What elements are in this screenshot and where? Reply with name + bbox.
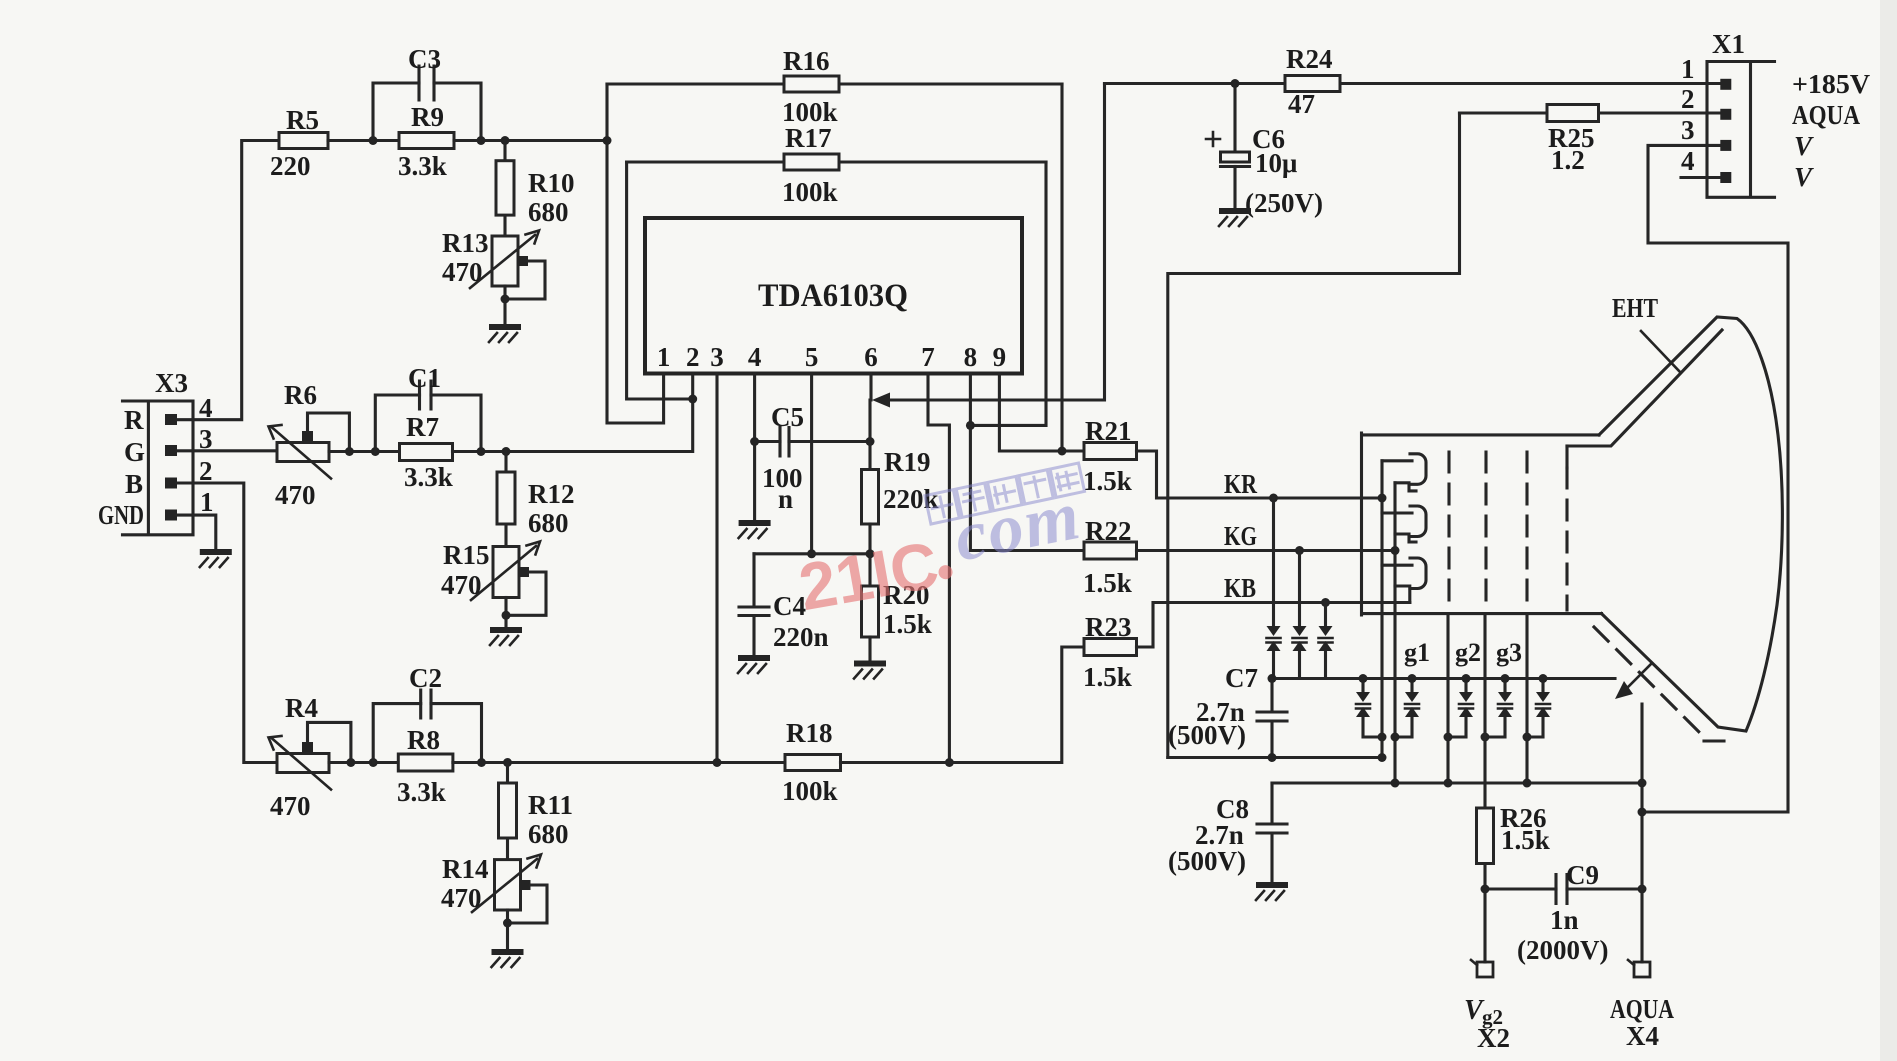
clamp diodes KR column — [1267, 498, 1281, 679]
clamp diodes KB column — [1319, 603, 1333, 679]
resistor R17 (pin2 to pin8 feedback) — [627, 123, 1046, 207]
resistor R22 — [1083, 516, 1137, 598]
wire lower rail from box leg — [1168, 756, 1382, 759]
svg-text:KR: KR — [1224, 469, 1257, 499]
wire cathode stem A — [1380, 461, 1383, 758]
node R5/C3 junction — [369, 136, 378, 145]
resistor R18 — [782, 718, 841, 806]
scan edge shade — [1880, 0, 1897, 1061]
svg-text:R12: R12 — [528, 479, 575, 509]
wire aqua rail (C8 rail) — [1272, 781, 1642, 784]
grid clamp diode column g2 — [1444, 674, 1474, 742]
grid clamp diode column g4 — [1523, 674, 1551, 742]
node C2 right — [477, 758, 486, 767]
wire pin6 node down to R19 — [868, 400, 871, 470]
wire grid stem g3 — [1525, 614, 1528, 783]
svg-text:680: 680 — [528, 197, 569, 227]
svg-text:3.3k: 3.3k — [398, 151, 447, 181]
ground (pin 4) — [739, 520, 771, 538]
resistor R26 — [1477, 803, 1550, 962]
svg-text:2: 2 — [1681, 84, 1695, 114]
arrow into pin 6 — [872, 393, 890, 408]
wire R5 to R9 — [328, 139, 399, 142]
svg-text:R5: R5 — [286, 105, 319, 135]
svg-text:AQUA: AQUA — [1610, 994, 1674, 1024]
svg-text:8: 8 — [964, 342, 978, 372]
svg-text:470: 470 — [270, 791, 311, 821]
svg-text:TDA6103Q: TDA6103Q — [758, 278, 908, 314]
svg-text:R: R — [124, 405, 144, 435]
svg-text:R17: R17 — [785, 123, 832, 153]
svg-text:R22: R22 — [1085, 516, 1132, 546]
cathode K2 — [1382, 506, 1426, 542]
svg-text:G: G — [124, 437, 145, 467]
svg-text:R15: R15 — [443, 540, 490, 570]
svg-text:g3: g3 — [1496, 638, 1522, 667]
wire pin4 down to ground — [753, 374, 756, 521]
label EHT with pointer — [1612, 293, 1680, 372]
node R channel to R16 leg — [603, 136, 612, 145]
svg-text:R4: R4 — [285, 693, 318, 723]
svg-text:1: 1 — [657, 342, 671, 372]
svg-text:C1: C1 — [408, 363, 441, 393]
svg-text:X4: X4 — [1626, 1021, 1659, 1051]
svg-text:470: 470 — [442, 257, 483, 287]
svg-text:470: 470 — [441, 883, 482, 913]
svg-text:470: 470 — [275, 480, 316, 510]
svg-text:R24: R24 — [1286, 44, 1333, 74]
cathode K1 — [1382, 454, 1426, 491]
svg-text:EHT: EHT — [1612, 293, 1658, 323]
watermark chinese characters — [925, 463, 1085, 524]
terminal X2 — [1464, 960, 1510, 1053]
node C7 bottom — [1268, 753, 1277, 762]
grid clamp diode column g0 — [1356, 674, 1387, 742]
wire X3 pin1 to ground — [177, 515, 216, 549]
wire R16 left leg to pin 1 — [607, 84, 664, 423]
CRT bell outline with EHT funnel — [1567, 317, 1782, 731]
svg-text:R11: R11 — [528, 790, 573, 820]
svg-text:1.5k: 1.5k — [1083, 466, 1132, 496]
wire R18 line right end up to R23 — [841, 647, 1085, 763]
cathode K3 — [1382, 558, 1426, 603]
wire R25 left down to grid box rail — [1168, 113, 1460, 758]
node R10 top — [501, 136, 510, 145]
resistor R20 — [862, 554, 932, 661]
svg-text:(250V): (250V) — [1245, 188, 1323, 218]
resistor R10 — [496, 141, 575, 237]
svg-text:GND: GND — [98, 500, 144, 530]
capacitor C1 — [375, 363, 481, 452]
svg-text:R19: R19 — [884, 447, 931, 477]
svg-text:C2: C2 — [409, 663, 442, 693]
wire X3 pin3 to R6 (G channel) — [177, 449, 277, 452]
resistor R5 — [270, 105, 328, 181]
svg-text:(2000V): (2000V) — [1517, 935, 1608, 965]
node pin7 to R18 line — [945, 758, 954, 767]
svg-text:4: 4 — [748, 342, 762, 372]
svg-text:220k: 220k — [883, 484, 939, 514]
wire pin8 node down to R22 — [970, 425, 1084, 550]
potentiometer R15 — [441, 540, 546, 627]
svg-text:R8: R8 — [407, 725, 440, 755]
svg-text:R18: R18 — [786, 718, 833, 748]
wire pin2 stub — [691, 374, 694, 400]
svg-text:10μ: 10μ — [1255, 148, 1297, 178]
connector X3 — [98, 368, 214, 535]
svg-text:1.5k: 1.5k — [1083, 568, 1132, 598]
node KR to stem A — [1378, 494, 1387, 503]
node pin9/R16/R21 — [1058, 447, 1067, 456]
node C3 right — [477, 136, 486, 145]
svg-text:3.3k: 3.3k — [397, 777, 446, 807]
potentiometer R14 — [441, 854, 547, 949]
svg-text:3: 3 — [710, 342, 724, 372]
node pin5 to C4 line — [807, 549, 816, 558]
svg-text:100k: 100k — [782, 177, 838, 207]
node R26/C9 — [1481, 885, 1490, 894]
node C6 tap — [1231, 79, 1240, 88]
node rail/C7 — [1268, 674, 1277, 683]
svg-text:3: 3 — [1681, 115, 1695, 145]
svg-text:47: 47 — [1288, 89, 1315, 119]
svg-text:680: 680 — [528, 508, 569, 538]
capacitor C4 — [739, 554, 829, 655]
resistor R19 — [862, 447, 939, 554]
node KG to stem B — [1391, 546, 1400, 555]
svg-text:R13: R13 — [442, 228, 489, 258]
node R11 top — [503, 758, 512, 767]
wire AQUA column — [1640, 704, 1643, 962]
capacitor C6 (electrolytic) — [1206, 84, 1323, 219]
wire pin7 down to B output line — [928, 374, 949, 763]
svg-text:(500V): (500V) — [1168, 846, 1246, 876]
CRT grid electrodes (dashed) — [1449, 446, 1567, 610]
svg-text:6: 6 — [864, 342, 878, 372]
resistor R25 — [1460, 105, 1721, 176]
wire R7 to IC pin2 riser — [453, 399, 693, 452]
potentiometer R13 — [442, 228, 545, 324]
wire pin5 down to C4 line — [810, 374, 813, 554]
watermark 21IC — [794, 525, 958, 624]
svg-text:g2: g2 — [1455, 638, 1481, 667]
node AQUA rail end — [1638, 779, 1647, 788]
svg-text:R16: R16 — [783, 46, 830, 76]
svg-text:2: 2 — [686, 342, 700, 372]
svg-text:1.5k: 1.5k — [1501, 825, 1550, 855]
svg-text:1n: 1n — [1550, 905, 1579, 935]
wire pin9 to R21 — [999, 374, 1084, 452]
potentiometer R6 — [269, 380, 350, 510]
wire R17 left leg to pin 2 — [627, 162, 693, 399]
svg-text:g1: g1 — [1404, 638, 1430, 667]
node AQUA/C9 — [1638, 885, 1647, 894]
svg-text:3.3k: 3.3k — [404, 462, 453, 492]
svg-text:C7: C7 — [1225, 663, 1258, 693]
svg-text:470: 470 — [441, 570, 482, 600]
wire R4 to R8 — [329, 761, 398, 764]
node KR clamp tap — [1269, 494, 1278, 503]
svg-text:V: V — [1794, 162, 1814, 192]
node stem B end — [1391, 779, 1400, 788]
capacitor C8 — [1168, 783, 1287, 882]
svg-text:X1: X1 — [1712, 29, 1745, 59]
svg-text:+185V: +185V — [1792, 69, 1871, 99]
wire R22 to KG — [1137, 549, 1396, 552]
grid clamp diode column g1 — [1391, 674, 1420, 742]
svg-text:R14: R14 — [442, 854, 489, 884]
ground (C8) — [1256, 882, 1288, 900]
node stem g3 end — [1523, 779, 1532, 788]
resistor R8 — [397, 725, 453, 807]
wire X3 pin2 down to B channel — [177, 483, 277, 763]
wire R9 to node — [454, 139, 607, 142]
wire R6 to R7 — [329, 450, 400, 453]
svg-text:100k: 100k — [782, 776, 838, 806]
wire grid stem g2 (to R26) — [1483, 614, 1486, 808]
resistor R21 — [1083, 416, 1137, 496]
svg-text:KG: KG — [1224, 521, 1257, 551]
wire R16 right leg to pin9 node — [1060, 84, 1063, 451]
node KG clamp tap — [1295, 546, 1304, 555]
capacitor C5 — [755, 402, 870, 514]
wire R21 to KR — [1137, 451, 1383, 498]
svg-text:C9: C9 — [1566, 860, 1599, 890]
terminal X4 — [1610, 960, 1674, 1051]
beam arrow at rail end — [1615, 663, 1652, 699]
ground (X3 pin1) — [200, 549, 232, 567]
capacitor C7 — [1168, 663, 1287, 758]
node pin2 junction — [688, 395, 697, 404]
wire grid stem g1 — [1446, 614, 1449, 783]
svg-text:C5: C5 — [771, 402, 804, 432]
clamp diodes KG column — [1293, 551, 1307, 679]
svg-text:9: 9 — [993, 342, 1007, 372]
svg-text:7: 7 — [921, 342, 935, 372]
node C2 left — [369, 758, 378, 767]
watermark .com — [948, 477, 1087, 577]
grid clamp diode column g3 — [1481, 674, 1513, 742]
wire X3 pin4 up to R channel — [177, 141, 279, 420]
node pin3 to B line — [713, 758, 722, 767]
CRT gun box — [1362, 433, 1602, 615]
ground (C4) — [738, 655, 770, 673]
node C5/R19 — [866, 437, 875, 446]
ground (R13) — [489, 324, 521, 342]
svg-text:220n: 220n — [773, 622, 829, 652]
node pin8 junction — [966, 421, 975, 430]
svg-text:1: 1 — [200, 487, 214, 517]
svg-text:1: 1 — [1681, 54, 1695, 84]
node stem g1 end — [1444, 779, 1453, 788]
svg-text:220: 220 — [270, 151, 311, 181]
resistor R24 — [1285, 44, 1340, 119]
resistor R16 (pin1 to pin9 feedback) — [607, 46, 1062, 127]
svg-text:C3: C3 — [408, 44, 441, 74]
wire X1 pin4 stub — [1681, 176, 1720, 179]
wire R23 to KB — [1137, 603, 1410, 648]
svg-text:R21: R21 — [1085, 416, 1132, 446]
wire clamp rail (C7 rail) — [1272, 677, 1615, 680]
svg-text:X2: X2 — [1477, 1023, 1510, 1053]
svg-text:R6: R6 — [284, 380, 317, 410]
wire pin3 down to B line — [715, 374, 718, 763]
capacitor C3 — [373, 44, 481, 141]
ground (C6) — [1219, 208, 1251, 226]
svg-text:1.2: 1.2 — [1551, 145, 1585, 175]
resistor R11 — [499, 763, 574, 860]
ground (R20) — [854, 661, 886, 679]
svg-text:R23: R23 — [1085, 612, 1132, 642]
wire cathode stem B — [1393, 483, 1396, 783]
wire X1 pin3 return to AQUA line — [1642, 145, 1788, 812]
svg-text:(500V): (500V) — [1168, 720, 1246, 750]
svg-text:1.5k: 1.5k — [883, 609, 932, 639]
svg-text:R10: R10 — [528, 168, 575, 198]
capacitor C9 — [1485, 860, 1642, 965]
connector X1 — [1681, 29, 1871, 197]
resistor R12 — [497, 452, 575, 547]
wire pin6 stub and supply feed — [871, 84, 1105, 401]
capacitor C2 — [373, 663, 481, 763]
svg-text:R9: R9 — [411, 102, 444, 132]
node AQUA X1pin3 — [1638, 808, 1647, 817]
svg-text:5: 5 — [805, 342, 819, 372]
svg-text:KB: KB — [1224, 573, 1256, 603]
svg-text:AQUA: AQUA — [1792, 100, 1860, 130]
resistor R7 — [400, 412, 453, 492]
node pin4/C5 — [750, 437, 759, 446]
svg-text:B: B — [125, 469, 143, 499]
svg-text:1.5k: 1.5k — [1083, 662, 1132, 692]
wire R17 right leg down to pin8 node — [970, 162, 1046, 425]
svg-text:V: V — [1794, 131, 1814, 161]
node KB clamp tap — [1321, 598, 1330, 607]
CRT inner funnel dashed wall — [1594, 627, 1735, 741]
ground (R14) — [492, 949, 524, 967]
node C1 right — [477, 447, 486, 456]
op-amp U1 TDA6103Q — [645, 218, 1022, 374]
wire C4 line — [754, 552, 870, 555]
potentiometer R4 — [269, 693, 351, 821]
resistor R23 — [1083, 612, 1137, 692]
node R12 top — [502, 447, 511, 456]
node R19/R20/C4 line — [866, 549, 875, 558]
node C1 left — [371, 447, 380, 456]
wire +185V top line — [1105, 82, 1721, 85]
svg-text:4: 4 — [1681, 146, 1695, 176]
svg-text:X3: X3 — [155, 368, 188, 398]
ground (R15) — [490, 627, 522, 645]
resistor R9 — [398, 102, 454, 181]
svg-text:680: 680 — [528, 819, 569, 849]
node R4 wiper — [346, 758, 355, 767]
wire R8 to R18 line — [453, 761, 785, 764]
node stem A end — [1378, 753, 1387, 762]
svg-text:n: n — [778, 484, 793, 514]
node R6 wiper — [345, 447, 354, 456]
svg-text:R7: R7 — [406, 412, 439, 442]
